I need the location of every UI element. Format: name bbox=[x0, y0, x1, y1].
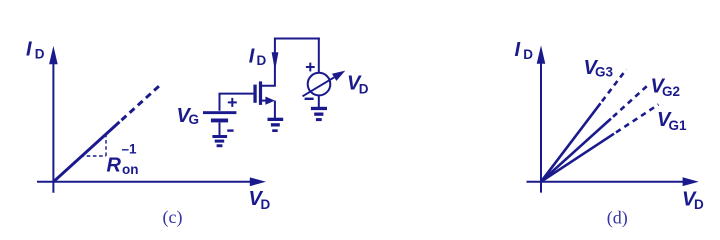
battery VG bottom plate bbox=[211, 119, 228, 123]
x-axis arrowhead bbox=[250, 177, 266, 186]
svg-text:D: D bbox=[359, 81, 369, 96]
VD source plus bbox=[306, 66, 315, 68]
svg-text:D: D bbox=[523, 47, 533, 62]
VD variable arrowhead bbox=[332, 71, 345, 81]
VD source circle bbox=[308, 73, 331, 96]
svg-text:I: I bbox=[249, 45, 255, 67]
svg-text:G3: G3 bbox=[595, 65, 614, 80]
svg-text:D: D bbox=[257, 53, 267, 68]
x-axis bbox=[37, 181, 251, 183]
wire battery to gate bbox=[220, 94, 254, 111]
svg-text:(d): (d) bbox=[607, 208, 628, 229]
line VG2 dashed bbox=[613, 86, 647, 117]
mosfet source wire bbox=[261, 100, 267, 102]
I-V line dashed bbox=[122, 85, 161, 120]
wire battery to ground bbox=[219, 122, 221, 135]
ground under battery bbox=[212, 135, 227, 138]
I_D current arrow bbox=[272, 52, 279, 71]
svg-text:D: D bbox=[694, 197, 704, 212]
line VG3 dashed bbox=[602, 69, 626, 101]
slope triangle dashed vertical bbox=[105, 134, 107, 157]
mosfet M1 gate bar bbox=[253, 85, 256, 103]
wire down to VD source bbox=[318, 38, 320, 74]
wire VD source to ground bbox=[318, 95, 320, 107]
y-axis bbox=[540, 60, 542, 193]
x-axis arrowhead bbox=[683, 177, 699, 186]
svg-text:G1: G1 bbox=[669, 118, 688, 133]
VD variable arrow line bbox=[303, 77, 335, 96]
x-axis bbox=[527, 181, 685, 183]
ground under VD source bbox=[311, 107, 327, 110]
top wire drain to VD source bbox=[274, 38, 320, 40]
battery VG top plate bbox=[203, 111, 236, 114]
svg-text:R: R bbox=[107, 155, 122, 177]
svg-text:(c): (c) bbox=[163, 207, 183, 228]
ground under mosfet bbox=[268, 118, 284, 121]
svg-text:–1: –1 bbox=[122, 142, 138, 157]
slope triangle dashed horizontal bbox=[81, 155, 107, 157]
I-V line solid bbox=[53, 122, 119, 182]
svg-text:D: D bbox=[261, 197, 271, 212]
y-axis bbox=[52, 60, 54, 193]
line VG1 dashed bbox=[616, 105, 659, 133]
battery VG minus sign bbox=[227, 129, 233, 131]
mosfet source arrow bbox=[265, 97, 275, 105]
svg-text:G: G bbox=[189, 112, 200, 127]
line VG3 solid bbox=[541, 103, 601, 181]
mosfet M1 channel bar bbox=[259, 81, 262, 105]
svg-text:G2: G2 bbox=[662, 84, 680, 99]
svg-text:I: I bbox=[26, 38, 32, 60]
VD source minus bbox=[305, 98, 314, 100]
svg-text:D: D bbox=[35, 46, 45, 61]
svg-text:on: on bbox=[122, 162, 139, 177]
y-axis arrowhead bbox=[537, 45, 546, 63]
y-axis arrowhead bbox=[49, 46, 58, 64]
svg-text:I: I bbox=[515, 39, 521, 61]
line VG2 solid bbox=[541, 119, 611, 182]
line VG1 solid bbox=[541, 134, 614, 182]
mosfet drain wire bbox=[261, 40, 275, 86]
wire source to ground bbox=[274, 101, 276, 118]
battery VG plus sign bbox=[228, 101, 237, 103]
